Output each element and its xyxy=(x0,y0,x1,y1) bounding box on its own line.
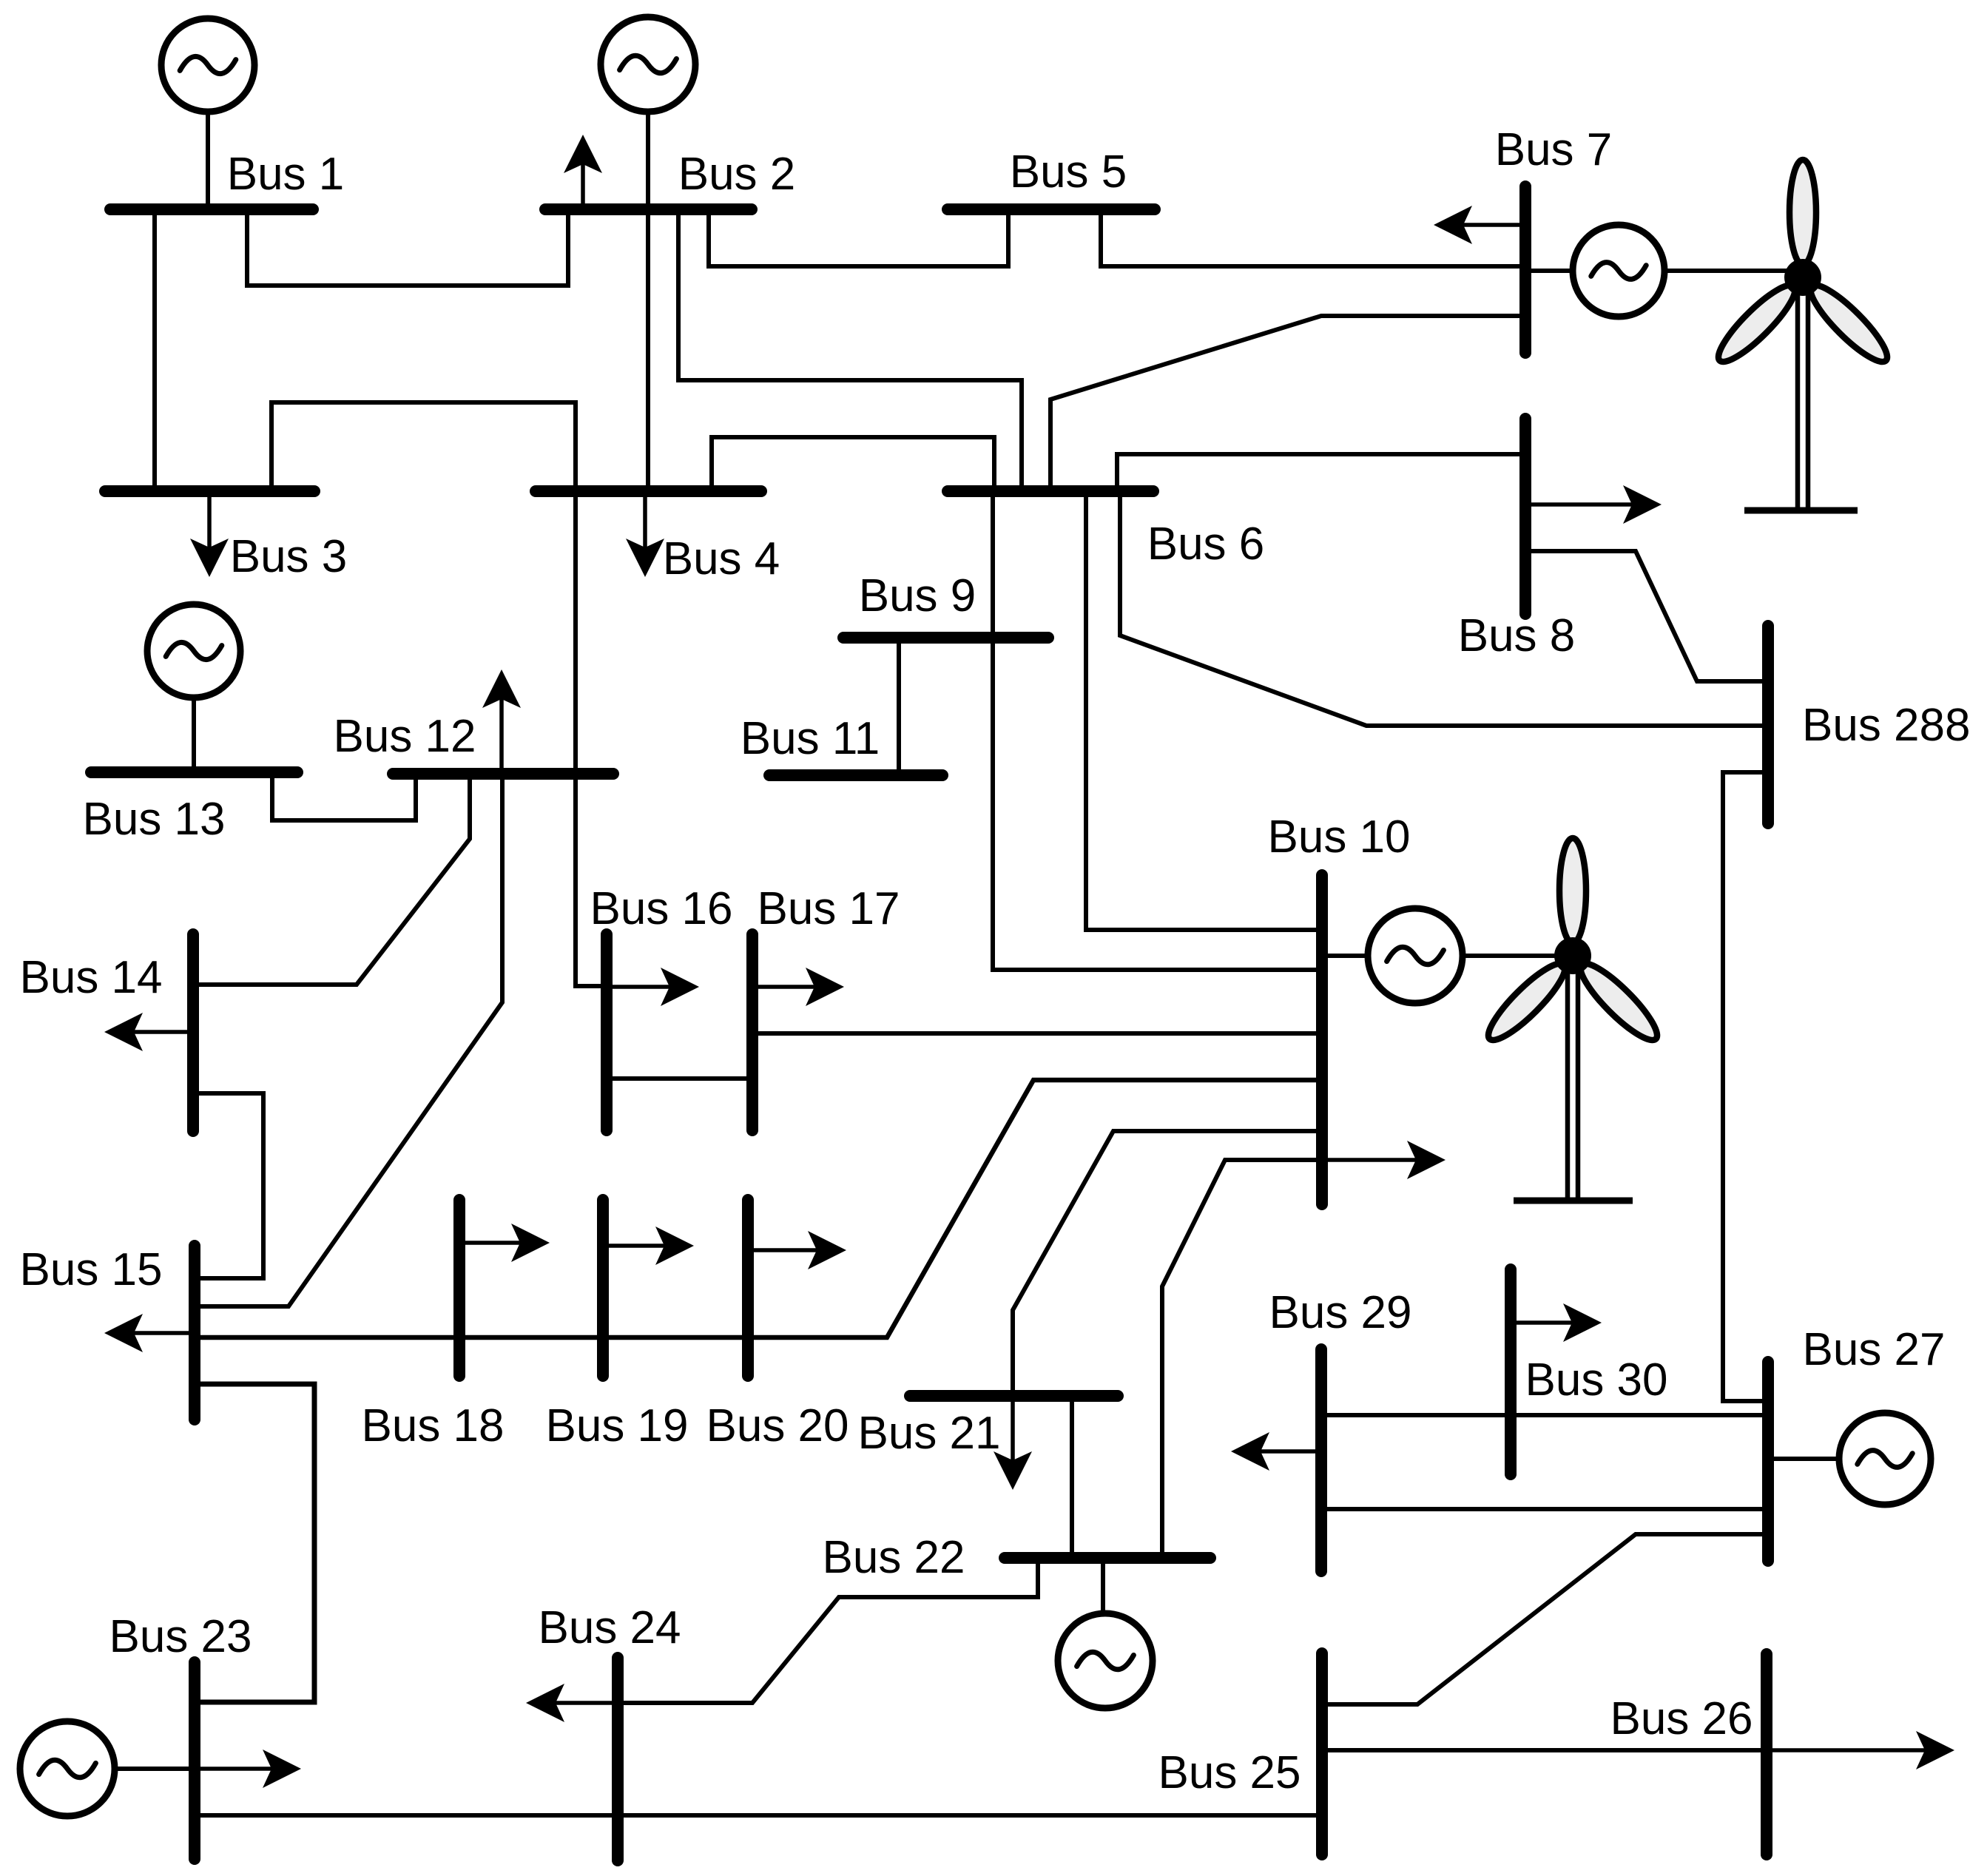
wire line 10-17 xyxy=(752,1031,1322,1036)
label bus 16 xyxy=(590,883,732,934)
load arrow right at bus 8 xyxy=(1525,485,1662,524)
svg-text:Bus 7: Bus 7 xyxy=(1495,124,1613,175)
label bus 21 xyxy=(857,1408,1000,1459)
load arrow right at bus 17 xyxy=(752,968,844,1006)
label bus 27 xyxy=(1802,1324,1945,1375)
wire line 29-27 xyxy=(1321,1507,1768,1511)
label bus 15 xyxy=(19,1244,162,1295)
wire line 6-28 xyxy=(1120,491,1768,726)
label bus 14 xyxy=(19,952,162,1003)
wire line 6-8 xyxy=(1117,454,1525,491)
load arrow left at bus 7 xyxy=(1434,206,1525,244)
generator G1 lead wire xyxy=(206,112,210,209)
generator G10 lead wire xyxy=(1322,954,1368,958)
injection arrow up at bus 2 xyxy=(564,135,602,209)
wire line 23-24-25 xyxy=(195,1813,1322,1818)
svg-text:Bus 9: Bus 9 xyxy=(859,570,976,621)
wire line 15-23 xyxy=(195,1384,314,1702)
wire line 12-13 xyxy=(272,772,416,820)
generator G27 lead wire xyxy=(1768,1457,1839,1461)
load arrow left at bus 29 xyxy=(1231,1432,1321,1471)
wire line 2-6 xyxy=(678,209,1022,491)
wire line 10-22 xyxy=(1162,1160,1322,1558)
svg-text:Bus 4: Bus 4 xyxy=(663,533,780,584)
load arrow right at bus 23 xyxy=(195,1750,301,1788)
generator G13 at bus 13 xyxy=(147,604,240,698)
wire line 9-11 xyxy=(897,638,901,775)
wire line 6-9 xyxy=(991,491,995,638)
wire line 4-6 xyxy=(712,437,994,491)
svg-text:Bus 8: Bus 8 xyxy=(1458,610,1576,661)
bus 17 bar xyxy=(746,934,758,1130)
wire line 12-15 xyxy=(195,774,502,1306)
bus 11 bar xyxy=(769,769,942,781)
label bus 10 xyxy=(1267,812,1410,863)
load arrow right at bus 30 xyxy=(1511,1303,1602,1342)
load arrow right at bus 20 xyxy=(748,1231,846,1269)
svg-text:Bus 12: Bus 12 xyxy=(333,711,476,762)
svg-text:Bus 3: Bus 3 xyxy=(230,531,348,582)
wire line 4-12 xyxy=(573,491,578,774)
svg-text:Bus 24: Bus 24 xyxy=(538,1602,681,1653)
bus 19 bar xyxy=(597,1200,609,1376)
label bus 3 xyxy=(230,531,348,582)
load arrow down at bus 3 xyxy=(190,491,229,577)
generator G13 lead wire xyxy=(192,698,196,772)
generator G2 at bus 2 xyxy=(601,17,695,112)
svg-text:Bus 17: Bus 17 xyxy=(757,883,900,934)
label bus 26 xyxy=(1610,1693,1753,1744)
svg-text:Bus 23: Bus 23 xyxy=(109,1611,252,1662)
bus 8 bar xyxy=(1519,419,1531,614)
svg-text:Bus 2: Bus 2 xyxy=(678,149,796,200)
label bus 8 xyxy=(1458,610,1576,661)
label bus 30 xyxy=(1525,1354,1667,1406)
generator G22 lead wire xyxy=(1101,1558,1105,1613)
svg-text:Bus 27: Bus 27 xyxy=(1802,1324,1945,1375)
label bus 1 xyxy=(227,149,345,200)
svg-text:Bus 20: Bus 20 xyxy=(706,1400,849,1451)
load arrow right at bus 18 xyxy=(459,1224,550,1262)
load arrow right at bus 10 xyxy=(1322,1141,1446,1179)
generator G7 lead wire xyxy=(1525,269,1573,273)
label bus 5 xyxy=(1010,146,1127,198)
label bus 6 xyxy=(1147,519,1265,570)
label bus 13 xyxy=(82,794,225,845)
load arrow left at bus 15 xyxy=(104,1314,195,1352)
wire line 6-10 xyxy=(1086,491,1322,930)
load arrow left at bus 14 xyxy=(104,1013,193,1051)
label bus 20 xyxy=(706,1400,849,1451)
generator G2 lead wire xyxy=(646,112,650,209)
bus 6 bar xyxy=(948,485,1153,497)
bus 21 bar xyxy=(910,1390,1118,1402)
svg-text:Bus 14: Bus 14 xyxy=(19,952,162,1003)
wire G7 to wind turbine W1 xyxy=(1664,269,1800,273)
injection arrow up at bus 12 xyxy=(482,669,521,774)
svg-text:Bus 15: Bus 15 xyxy=(19,1244,162,1295)
wire line 2-4 xyxy=(646,209,650,491)
wire line 8-28 xyxy=(1525,551,1768,681)
wire line 12-16 xyxy=(576,774,607,986)
load arrow right at bus 16 xyxy=(607,968,699,1006)
load arrow down at bus 21 xyxy=(994,1396,1032,1490)
svg-text:Bus 21: Bus 21 xyxy=(857,1408,1000,1459)
svg-text:Bus 5: Bus 5 xyxy=(1010,146,1127,198)
label bus 19 xyxy=(545,1400,688,1451)
wire line 25-27 xyxy=(1322,1534,1768,1704)
label bus 2 xyxy=(678,149,796,200)
svg-text:Bus 26: Bus 26 xyxy=(1610,1693,1753,1744)
label bus 28 xyxy=(1802,700,1970,751)
wire line 5-7 xyxy=(1101,209,1525,266)
svg-text:Bus 29: Bus 29 xyxy=(1269,1287,1411,1338)
bus 30 bar xyxy=(1505,1269,1517,1474)
bus 3 bar xyxy=(105,485,314,497)
wire line 3-4 xyxy=(271,402,576,491)
svg-text:Bus 30: Bus 30 xyxy=(1525,1354,1667,1406)
wind turbine W2 at bus 10 xyxy=(1480,838,1665,1201)
label bus 22 xyxy=(822,1532,965,1583)
generator G23 at bus 23 xyxy=(20,1721,115,1816)
wire G10 to wind turbine W2 xyxy=(1463,954,1571,958)
bus 28 bar xyxy=(1762,626,1774,823)
bus 5 bar xyxy=(948,203,1155,215)
label bus 11 xyxy=(741,713,880,764)
svg-text:Bus 16: Bus 16 xyxy=(590,883,732,934)
wire line 25-26 xyxy=(1322,1748,1767,1752)
bus 26 bar xyxy=(1761,1654,1772,1855)
bus 15 bar xyxy=(189,1246,200,1420)
wind turbine W1 at bus 7 xyxy=(1710,160,1895,510)
wire line 15-18-19-20-10 xyxy=(195,1080,1322,1337)
label bus 9 xyxy=(859,570,976,621)
svg-text:Bus 288: Bus 288 xyxy=(1802,700,1970,751)
load arrow right at bus 19 xyxy=(603,1227,694,1265)
svg-text:Bus 25: Bus 25 xyxy=(1158,1747,1301,1798)
generator G23 lead wire xyxy=(115,1767,195,1771)
svg-text:Bus 1: Bus 1 xyxy=(227,149,345,200)
wire line 22-24 xyxy=(618,1558,1038,1703)
label bus 23 xyxy=(109,1611,252,1662)
wire line 6-7 xyxy=(1050,316,1525,491)
bus 9 bar xyxy=(843,632,1048,644)
bus 27 bar xyxy=(1762,1362,1774,1561)
bus 2 bar xyxy=(545,203,752,215)
label bus 4 xyxy=(663,533,780,584)
bus 23 bar xyxy=(189,1662,200,1859)
bus 22 bar xyxy=(1005,1552,1210,1564)
generator G1 at bus 1 xyxy=(161,18,254,112)
label bus 12 xyxy=(333,711,476,762)
wire line 2-5 xyxy=(709,209,1008,266)
bus 12 bar xyxy=(393,768,613,780)
wire line 1-3 xyxy=(152,209,157,491)
load arrow left at bus 24 xyxy=(526,1684,618,1722)
bus 4 bar xyxy=(536,485,761,497)
bus 16 bar xyxy=(601,934,613,1130)
svg-text:Bus 19: Bus 19 xyxy=(545,1400,688,1451)
wire line 1-2 xyxy=(247,209,568,286)
wire line 21-22 xyxy=(1070,1396,1074,1558)
wire line 9-10 xyxy=(993,638,1322,970)
svg-text:Bus 18: Bus 18 xyxy=(361,1400,504,1451)
label bus 29 xyxy=(1269,1287,1411,1338)
generator G22 at bus 22 xyxy=(1058,1613,1153,1708)
bus 13 bar xyxy=(91,766,297,778)
svg-text:Bus 6: Bus 6 xyxy=(1147,519,1265,570)
wire line 14-15 xyxy=(193,1093,263,1278)
label bus 18 xyxy=(361,1400,504,1451)
wire line 16-17 xyxy=(607,1076,752,1081)
generator G27 at bus 27 xyxy=(1839,1413,1931,1505)
bus 10 bar xyxy=(1316,875,1328,1204)
bus 20 bar xyxy=(742,1200,754,1376)
generator G7 at bus 7 xyxy=(1573,225,1664,317)
svg-text:Bus 13: Bus 13 xyxy=(82,794,225,845)
label bus 17 xyxy=(757,883,900,934)
wire line 12-14 xyxy=(193,774,470,985)
generator G10 at bus 10 xyxy=(1368,908,1463,1003)
svg-text:Bus 22: Bus 22 xyxy=(822,1532,965,1583)
load arrow down at bus 4 xyxy=(626,491,664,577)
wire line 10-21 xyxy=(1013,1131,1322,1396)
svg-text:Bus 11: Bus 11 xyxy=(741,713,880,764)
load arrow right at bus 26 xyxy=(1767,1731,1954,1769)
label bus 7 xyxy=(1495,124,1613,175)
bus 29 bar xyxy=(1315,1349,1327,1571)
bus 14 bar xyxy=(187,934,199,1131)
bus 24 bar xyxy=(612,1658,624,1860)
bus 18 bar xyxy=(453,1200,465,1376)
bus 1 bar xyxy=(110,203,313,215)
wire line 29-30-27 xyxy=(1321,1413,1768,1417)
label bus 24 xyxy=(538,1602,681,1653)
bus 7 bar xyxy=(1519,186,1531,353)
bus 25 bar xyxy=(1316,1653,1328,1855)
label bus 25 xyxy=(1158,1747,1301,1798)
wire line 28-27 xyxy=(1723,772,1768,1401)
svg-text:Bus 10: Bus 10 xyxy=(1267,812,1410,863)
